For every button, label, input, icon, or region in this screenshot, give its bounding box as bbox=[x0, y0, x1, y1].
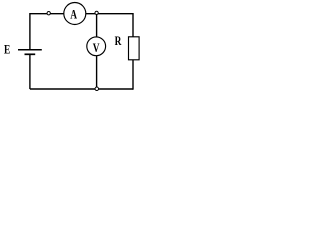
voltmeter U2: circle body bbox=[87, 37, 106, 56]
wire: voltmeter bottom down to bottom wire junction bbox=[96, 56, 98, 89]
battery E: short negative plate bbox=[25, 53, 36, 55]
svg-text:A: A bbox=[70, 8, 77, 22]
node: terminal circle left of ammeter bbox=[47, 12, 50, 15]
wire: left side, battery bottom plate down to bottom corner bbox=[29, 54, 31, 89]
wire: right side, top corner down to resistor top bbox=[132, 13, 134, 37]
wire: top, from left corner to right corner bbox=[30, 13, 133, 15]
node: junction circle voltmeter tap on bottom wire bbox=[95, 87, 99, 91]
battery E: long positive plate bbox=[18, 49, 42, 51]
wire: right side, resistor bottom down to bottom corner bbox=[132, 60, 134, 90]
wire: voltmeter branch, junction on top wire down to voltmeter bbox=[96, 14, 98, 37]
resistor R: rectangle body bbox=[129, 37, 140, 60]
wire: bottom, from left corner to right corner bbox=[30, 88, 133, 90]
svg-text:E: E bbox=[4, 43, 10, 57]
svg-text:R: R bbox=[115, 35, 123, 49]
svg-text:V: V bbox=[93, 42, 100, 56]
wire: left side, top corner down to battery top plate bbox=[29, 13, 31, 50]
node: junction circle right of ammeter (voltmeter tap, top) bbox=[95, 11, 98, 14]
ammeter U1: circle body bbox=[64, 3, 86, 25]
